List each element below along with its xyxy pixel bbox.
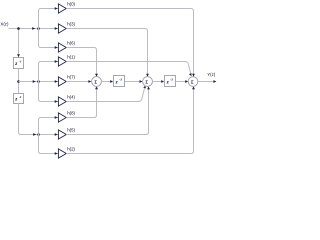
wire h5 output to summer 2 bottom xyxy=(66,89,148,135)
wire summer 2 to delay Z4 xyxy=(152,81,162,83)
arrow into delay Z1 xyxy=(17,54,20,57)
wire delay-chain vertical from input node xyxy=(18,29,20,55)
svg-text:h(3): h(3) xyxy=(67,22,75,27)
node junction phase-2 feed to bus 2 xyxy=(37,80,40,83)
arrow on phase-2 feed xyxy=(33,80,36,83)
arrow h6 into summer 1 xyxy=(95,74,98,77)
svg-text:h(5): h(5) xyxy=(67,128,75,133)
amplifier coefficient h(1) xyxy=(58,57,66,66)
wire bus 1 vertical to taps h0 h6 xyxy=(39,9,59,48)
arrow h7 into summer 1 xyxy=(88,80,91,83)
arrow into amplifier h(0) xyxy=(55,7,58,10)
node junction phase-3 feed to bus 3 xyxy=(37,133,40,136)
arrow h2 into summer 3 xyxy=(192,86,195,89)
svg-text:h(6): h(6) xyxy=(67,41,75,46)
amplifier coefficient h(3) xyxy=(58,24,66,33)
wire summer 1 to delay Z3 xyxy=(101,81,110,83)
arrow into delay Z3 xyxy=(110,80,113,83)
arrow h0 into summer 3 xyxy=(192,74,195,77)
svg-text:-3: -3 xyxy=(170,78,173,82)
svg-text:h(1): h(1) xyxy=(67,55,75,60)
arrow output end xyxy=(213,80,216,83)
node junction phase-1 feed to bus 1 xyxy=(37,27,40,30)
arrow into amplifier h(6) xyxy=(55,46,58,49)
wire bus 3 vertical to taps h8 h2 xyxy=(39,118,59,154)
delay block Z2 z^-1 xyxy=(14,94,24,104)
wire h1 output to summer 3 upper-left diagonal xyxy=(66,62,190,74)
wire delay Z3 to summer 2 xyxy=(125,81,141,83)
svg-text:Σ: Σ xyxy=(145,80,148,85)
arrow into amplifier h(8) xyxy=(55,116,58,119)
wire output line to Y(z) xyxy=(198,81,214,83)
wire h4 output to summer 2 lower-left diagonal xyxy=(66,88,144,101)
arrow into summer 3 xyxy=(185,80,188,83)
svg-text:-3: -3 xyxy=(119,78,122,82)
wire delay Z1 to phase-2 node xyxy=(18,69,20,94)
summer U3 sigma xyxy=(188,77,198,87)
arrow into amplifier h(5) xyxy=(55,133,58,136)
amplifier coefficient h(2) xyxy=(58,149,66,158)
arrow on phase-3 feed xyxy=(33,133,36,136)
arrow h5 into summer 2 xyxy=(147,86,150,89)
svg-text:h(8): h(8) xyxy=(67,111,75,116)
delay block Z1 z^-1 xyxy=(14,58,24,69)
arrow into amplifier h(7) xyxy=(55,80,58,83)
wire phase-1 input feed line xyxy=(9,28,59,30)
amplifier coefficient h(5) xyxy=(58,130,66,139)
amplifier coefficient h(4) xyxy=(58,97,66,106)
arrow into amplifier h(3) xyxy=(55,27,58,30)
wire h3 output to summer 2 top xyxy=(66,29,147,75)
delay block Z4 z^-3 xyxy=(165,76,176,87)
arrow into amplifier h(1) xyxy=(55,60,58,63)
summer U1 sigma xyxy=(92,77,102,87)
wire h6 output to summer 1 top xyxy=(66,48,96,75)
svg-text:h(4): h(4) xyxy=(67,95,75,100)
amplifier coefficient h(7) xyxy=(58,77,66,86)
svg-text:h(7): h(7) xyxy=(67,75,75,80)
amplifier coefficient h(6) xyxy=(58,43,66,52)
svg-text:h(0): h(0) xyxy=(67,2,75,7)
node junction phase-2 feed / delay chain xyxy=(17,80,20,83)
arrow h4 into summer 2 xyxy=(143,86,146,89)
svg-text:-1: -1 xyxy=(19,95,22,99)
arrow into delay Z4 xyxy=(161,80,164,83)
wire h8 output to summer 1 bottom xyxy=(66,89,96,118)
amplifier coefficient h(0) xyxy=(58,4,66,13)
arrow into amplifier h(4) xyxy=(55,100,58,103)
arrow on phase-1 feed xyxy=(32,27,35,30)
wire delay Z2 down then right phase-3 feed xyxy=(19,104,59,135)
wire h0 output to summer 3 top xyxy=(66,9,193,75)
svg-text:-1: -1 xyxy=(19,60,22,64)
arrow into summer 2 xyxy=(140,80,143,83)
arrow h3 into summer 2 xyxy=(146,74,149,77)
arrow h1 into summer 3 xyxy=(189,73,192,76)
wire h7 output to summer 1 xyxy=(66,81,89,83)
arrow into amplifier h(2) xyxy=(55,152,58,155)
wire bus 2 vertical to taps h1 h4 xyxy=(39,62,59,102)
svg-text:Y(z): Y(z) xyxy=(207,72,216,77)
arrow h8 into summer 1 xyxy=(95,86,98,89)
delay block Z3 z^-3 xyxy=(114,76,125,87)
summer U2 sigma xyxy=(143,77,153,87)
svg-text:h(2): h(2) xyxy=(67,147,75,152)
node junction input to delay chain xyxy=(17,27,20,30)
wire delay Z4 to summer 3 xyxy=(176,81,186,83)
wire phase-2 feed line xyxy=(19,81,59,83)
svg-text:X(z): X(z) xyxy=(0,21,9,26)
svg-text:Σ: Σ xyxy=(191,80,194,85)
svg-text:Σ: Σ xyxy=(94,80,97,85)
wire h2 output to summer 3 bottom xyxy=(66,89,193,154)
amplifier coefficient h(8) xyxy=(58,113,66,122)
